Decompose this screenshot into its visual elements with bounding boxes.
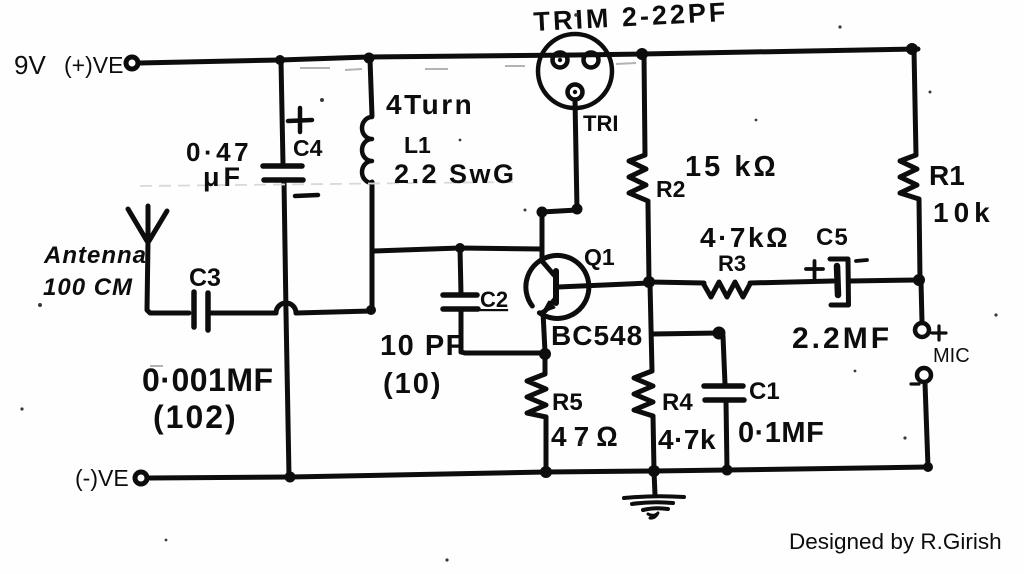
capacitor C1 plate top xyxy=(704,383,743,389)
wire: R5 bottom to bottom rail xyxy=(544,417,549,471)
wire: R2 bottom to base node xyxy=(648,206,649,281)
junction node: top rail / L1 xyxy=(364,53,375,64)
transistor Q1 emitter arrowhead xyxy=(544,302,555,312)
wire: ground stub xyxy=(654,471,655,495)
wire: L1 bottom down to C3 node xyxy=(370,182,375,310)
polarity: C4 plus xyxy=(288,108,312,132)
trimmer TR1 pin bottom xyxy=(568,85,583,100)
svg-text:TRI: TRI xyxy=(583,111,618,136)
svg-text:0·001MF: 0·001MF xyxy=(142,362,274,398)
wire: R3 left lead xyxy=(650,282,704,283)
junction node: C1 corner xyxy=(713,327,726,340)
capacitor C4 plate bottom xyxy=(264,177,303,183)
transistor Q1 emitter stroke xyxy=(545,298,556,311)
wire: base node to C1 top xyxy=(652,333,725,384)
junction node: tap / C2 xyxy=(455,243,465,253)
capacitor C3 plate left xyxy=(191,292,197,327)
wire: antenna stem down to C3 xyxy=(147,241,189,313)
capacitor C5 plus plate xyxy=(837,266,838,295)
junction node: top rail / R2 xyxy=(636,48,648,60)
capacitor C2 plate top xyxy=(443,292,477,298)
svg-text:(10): (10) xyxy=(383,368,443,400)
capacitor C1 plate bottom xyxy=(705,397,744,403)
wire: C2 bottom to emitter node xyxy=(461,310,543,353)
svg-text:47Ω: 47Ω xyxy=(551,421,625,452)
svg-text:Q1: Q1 xyxy=(584,244,615,270)
svg-text:C3: C3 xyxy=(189,264,221,292)
polarity: C4 minus xyxy=(295,195,318,196)
wire: R5 top lead xyxy=(543,354,548,374)
capacitor C5 curved plate bracket xyxy=(830,259,849,305)
transistor Q1 base bar xyxy=(553,271,559,303)
svg-text:BC548: BC548 xyxy=(551,320,643,351)
junction node: TR1 jog right xyxy=(572,204,583,215)
wire: L1 branch from top rail xyxy=(370,59,372,116)
wire: base node down to R4 xyxy=(650,283,652,371)
junction node: base / R2 / R3 xyxy=(643,276,655,288)
capacitor C4 plate top xyxy=(263,163,302,169)
svg-text:C4: C4 xyxy=(293,135,323,161)
svg-text:C1: C1 xyxy=(749,378,780,405)
junction node: top rail / R1 xyxy=(906,43,918,55)
svg-text:R3: R3 xyxy=(718,251,746,276)
capacitor C3 plate right xyxy=(205,293,211,330)
resistor R3 zigzag xyxy=(703,282,750,297)
junction node: TR1 jog left xyxy=(537,207,548,218)
svg-text:15 kΩ: 15 kΩ xyxy=(685,151,779,183)
resistor R1 zigzag xyxy=(900,155,919,199)
svg-text:C5: C5 xyxy=(816,224,849,251)
svg-text:Antenna: Antenna xyxy=(43,242,147,269)
wire: hop to L1 bottom node xyxy=(296,311,371,313)
trimmer TR1 body xyxy=(538,34,612,108)
resistor R2 zigzag xyxy=(629,155,648,206)
terminal (-)VE xyxy=(135,472,147,484)
junction node: top rail / C4 xyxy=(275,55,285,65)
svg-text:100 CM: 100 CM xyxy=(43,274,133,301)
svg-text:10k: 10k xyxy=(933,197,995,228)
wire: C2 top lead xyxy=(460,248,461,294)
svg-text:μF: μF xyxy=(203,162,244,192)
svg-text:4Turn: 4Turn xyxy=(386,89,474,120)
inductor L1 coil xyxy=(362,117,372,183)
junction node: bottom rail / R5 xyxy=(540,466,552,478)
svg-text:9V: 9V xyxy=(14,50,46,80)
polarity: C5 minus xyxy=(856,260,867,261)
junction node: C5 / R1 xyxy=(913,274,925,286)
scan noise smudges under top rail xyxy=(150,63,636,366)
transistor Q1 collector stroke xyxy=(542,261,554,275)
resistor R5 zigzag xyxy=(527,374,546,417)
junction node: L1 / C3 corner xyxy=(366,305,376,315)
terminal MIC minus xyxy=(917,368,931,382)
wire: top (+) rail xyxy=(139,49,918,63)
trimmer TR1 pin left xyxy=(553,53,568,68)
capacitor C2 plate bottom xyxy=(443,306,478,312)
wire: TR1 bottom lead down xyxy=(575,100,577,209)
svg-text:4·7kΩ: 4·7kΩ xyxy=(700,222,790,253)
svg-text:R5: R5 xyxy=(552,389,583,416)
svg-text:4·7k: 4·7k xyxy=(658,424,716,455)
svg-text:C2: C2 xyxy=(480,287,508,312)
wire: collector line down to Q1 xyxy=(540,212,545,261)
svg-text:2.2MF: 2.2MF xyxy=(792,322,892,355)
wire: R4 bottom to bottom rail xyxy=(653,416,654,470)
ground symbol xyxy=(624,496,684,498)
wire: Q1 emitter lead down xyxy=(543,312,545,352)
svg-text:(-)VE: (-)VE xyxy=(75,465,129,491)
svg-text:Designed by R.Girish: Designed by R.Girish xyxy=(789,529,1002,554)
wire: C1 bottom to bottom rail xyxy=(726,401,727,469)
wire: R1 branch from top rail xyxy=(914,50,916,155)
resistor R4 zigzag xyxy=(634,371,653,416)
wire: hop over C4 line xyxy=(276,303,296,313)
antenna symbol xyxy=(128,209,147,241)
svg-text:0·1MF: 0·1MF xyxy=(738,417,824,449)
trimmer TR1 pin right xyxy=(584,53,599,68)
svg-text:R1: R1 xyxy=(929,160,965,191)
wire: tank tap to C2 node and Q1 collector xyxy=(373,248,541,251)
wire: C4 bottom to bottom rail xyxy=(284,181,289,476)
wire: node to MIC plus terminal xyxy=(921,281,922,322)
transistor Q1 body xyxy=(526,255,589,318)
svg-text:2.2 SwG: 2.2 SwG xyxy=(394,159,517,189)
junction node: bottom rail / C1 xyxy=(722,465,733,476)
junction node: bottom rail / MIC minus xyxy=(923,462,933,472)
wire: R3 to C5 xyxy=(750,281,833,283)
terminal (+)VE xyxy=(126,57,138,69)
wire: MIC minus terminal to bottom rail xyxy=(925,383,928,467)
junction node: bottom rail / C4 branch xyxy=(285,472,296,483)
wire: R2 branch from top rail xyxy=(644,55,645,155)
junction node: bottom rail / R4 / ground xyxy=(648,465,660,477)
svg-text:MIC: MIC xyxy=(933,345,970,367)
wire: C4 branch from top rail xyxy=(281,61,283,164)
wire: Q1 base lead to R2/R3 node xyxy=(558,283,649,287)
wire: C3 to hop xyxy=(209,311,276,316)
svg-text:R2: R2 xyxy=(656,176,685,202)
scan artifact: faint fold line xyxy=(140,182,516,186)
polarity: MIC minus xyxy=(911,382,919,385)
wire: R1 bottom to MIC node xyxy=(919,199,920,279)
svg-text:R4: R4 xyxy=(662,389,693,416)
svg-text:(102): (102) xyxy=(153,399,238,435)
svg-text:(+)VE: (+)VE xyxy=(64,52,123,78)
junction node: emitter / C2 / R5 xyxy=(539,348,551,360)
polarity: MIC plus xyxy=(932,326,946,340)
svg-text:L1: L1 xyxy=(404,132,431,158)
terminal MIC plus xyxy=(915,323,929,337)
svg-text:10 PF: 10 PF xyxy=(380,330,465,362)
wire: jog to collector line xyxy=(542,210,577,212)
wire: C5 to R1 node xyxy=(850,280,917,281)
wire: bottom (-) rail xyxy=(149,467,928,478)
polarity: C5 plus xyxy=(806,261,823,278)
